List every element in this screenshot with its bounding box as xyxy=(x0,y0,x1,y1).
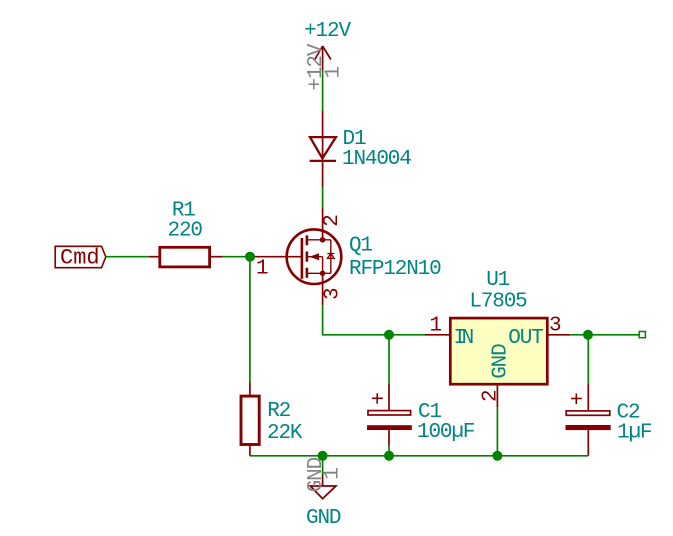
svg-text:OUT: OUT xyxy=(508,327,543,350)
junction gate node xyxy=(245,252,255,262)
pin name OUT xyxy=(508,327,543,350)
pin number 2 (U1 GND) xyxy=(479,390,502,402)
label R2 xyxy=(267,400,290,423)
junction C1 bottom xyxy=(384,451,394,461)
svg-text:GND: GND xyxy=(489,344,512,379)
wire OUT node down to C2 xyxy=(587,335,589,384)
power net label +12V xyxy=(304,20,351,43)
value 220 xyxy=(168,219,203,242)
label D1 xyxy=(343,128,366,151)
wire IN node to U1 xyxy=(389,334,425,336)
pin 1 (Q1 gate) xyxy=(256,258,268,281)
wire U1 OUT to junction xyxy=(570,334,588,336)
junction GND node xyxy=(318,451,328,461)
bottom rail wire xyxy=(250,455,588,457)
svg-text:2: 2 xyxy=(479,390,502,402)
pin number 1 (U1 IN) xyxy=(430,314,442,337)
value 1N4004 xyxy=(342,148,411,171)
unconnected end marker xyxy=(639,332,645,338)
svg-text:220: 220 xyxy=(168,219,203,242)
svg-text:100µF: 100µF xyxy=(417,421,475,444)
pin name GND (rotated) xyxy=(489,344,512,379)
wire +12V to D1 xyxy=(322,71,324,112)
ground pin name GND (grey) xyxy=(305,457,328,492)
ground net label GND xyxy=(306,507,341,530)
svg-text:Cmd: Cmd xyxy=(60,246,100,271)
diode D1 xyxy=(310,111,336,187)
svg-text:GND: GND xyxy=(306,507,341,530)
svg-text:U1: U1 xyxy=(486,269,509,292)
svg-text:+12V: +12V xyxy=(305,43,328,90)
label U1 xyxy=(486,269,509,292)
wire Q1 source to IN node xyxy=(323,305,389,335)
power symbol +12V xyxy=(315,46,331,71)
svg-text:L7805: L7805 xyxy=(469,290,527,313)
junction OUT node xyxy=(583,330,593,340)
value RFP12N10 xyxy=(349,258,441,281)
value 100uF xyxy=(417,421,475,444)
label R1 xyxy=(172,199,195,222)
pin name IN xyxy=(454,327,473,350)
svg-text:1µF: 1µF xyxy=(617,422,652,445)
wire rail to GND symbol xyxy=(322,456,324,475)
wire junction down to R2 xyxy=(249,257,251,383)
svg-text:2: 2 xyxy=(321,215,344,227)
net label Cmd xyxy=(55,246,106,271)
power pin name +12V (grey) xyxy=(305,43,328,90)
label Q1 xyxy=(349,235,372,258)
svg-text:Q1: Q1 xyxy=(349,235,372,258)
svg-text:+12V: +12V xyxy=(304,20,351,43)
svg-text:3: 3 xyxy=(321,288,344,300)
svg-text:R2: R2 xyxy=(267,400,290,423)
wire OUT node to open end xyxy=(588,334,639,336)
wire R1 to gate junction xyxy=(223,256,250,258)
regulator U1 xyxy=(425,318,570,407)
wire Cmd to R1 xyxy=(106,256,149,258)
resistor R2 xyxy=(241,383,259,456)
svg-text:1: 1 xyxy=(256,258,268,281)
transistor Q1 xyxy=(250,208,341,306)
wire IN node down to C1 xyxy=(388,335,390,384)
capacitor C2 xyxy=(566,384,611,456)
svg-text:1N4004: 1N4004 xyxy=(342,148,411,171)
svg-text:1: 1 xyxy=(430,314,442,337)
value L7805 xyxy=(469,290,527,313)
label C2 xyxy=(617,402,640,425)
value 1uF xyxy=(617,422,652,445)
svg-text:RFP12N10: RFP12N10 xyxy=(349,258,441,281)
pin 2 (Q1 drain) xyxy=(321,215,344,227)
label C1 xyxy=(418,401,441,424)
svg-text:1: 1 xyxy=(321,468,344,480)
wire U1 GND down to rail xyxy=(496,407,498,456)
junction IN node xyxy=(384,330,394,340)
pin 3 (Q1 source) xyxy=(321,288,344,300)
junction U1 GND bottom xyxy=(492,451,502,461)
svg-text:1: 1 xyxy=(323,67,346,79)
wire C1 to rail xyxy=(388,445,390,456)
svg-text:3: 3 xyxy=(549,315,561,338)
svg-text:22K: 22K xyxy=(267,422,303,445)
ground pin number 1 (grey) xyxy=(321,468,344,480)
capacitor C1 xyxy=(367,383,412,445)
ground symbol xyxy=(310,475,336,499)
wire D1 to Q1 drain xyxy=(322,187,324,208)
power pin number 1 (grey) xyxy=(323,67,346,79)
value 22K xyxy=(267,422,303,445)
resistor R1 xyxy=(149,247,223,267)
pin number 3 (U1 OUT) xyxy=(549,315,561,338)
